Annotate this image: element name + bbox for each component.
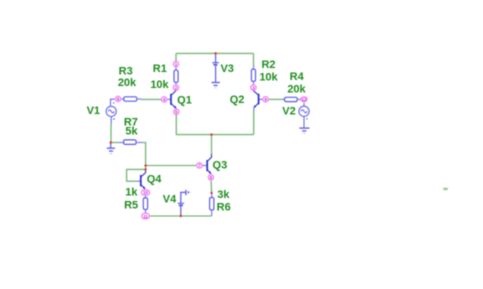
svg-text:20k: 20k (287, 84, 306, 96)
junction dot (R6 top) (210, 192, 212, 194)
svg-text:9: 9 (264, 97, 267, 102)
source V2 (299, 103, 309, 129)
svg-text:R2: R2 (261, 59, 275, 71)
svg-text:3: 3 (252, 85, 255, 90)
wire R7 left (111, 142, 119, 144)
svg-text:R6: R6 (217, 202, 231, 214)
ground (below V2) (299, 128, 309, 133)
transistor Q2 (253, 91, 262, 111)
svg-text:5: 5 (175, 110, 178, 115)
svg-text:R1: R1 (153, 63, 167, 75)
junction dot (V4 bottom rail) (180, 215, 182, 217)
svg-text:1k: 1k (125, 186, 138, 198)
resistor R4 (282, 97, 301, 101)
wire Q3 collector riser (211, 135, 213, 154)
svg-text:R3: R3 (119, 65, 133, 77)
svg-text:R5: R5 (124, 199, 138, 211)
node 3 bubble (251, 85, 256, 91)
transistor Q1 (167, 91, 176, 109)
V1 minus mark (113, 119, 115, 120)
resistor R2 (251, 65, 255, 84)
svg-text:Q2: Q2 (230, 94, 245, 106)
wire emitter rail (176, 134, 254, 136)
junction dot (V3 top rail) (214, 52, 216, 54)
svg-text:R4: R4 (290, 71, 305, 83)
V1 plus mark (113, 102, 114, 103)
junction dot (emitter rail / Q3) (210, 133, 212, 135)
svg-text:3k: 3k (217, 189, 230, 201)
node 1 bubble (173, 61, 178, 66)
svg-text:V4: V4 (163, 194, 177, 206)
svg-text:11: 11 (143, 214, 148, 219)
wire Q3 emitter to R6 (210, 181, 213, 193)
wire Q4 base loop (127, 169, 146, 181)
svg-text:Q1: Q1 (177, 94, 192, 106)
transistor Q3 (203, 154, 212, 174)
resistor R3 (121, 97, 141, 101)
node 9 bubble (263, 97, 268, 102)
node 7 bubble (197, 163, 202, 169)
svg-text:V3: V3 (220, 63, 233, 75)
node 2 bubble (173, 85, 178, 91)
wire Q1 emitter down (175, 115, 177, 135)
resistor R7 (119, 140, 142, 145)
svg-text:4: 4 (163, 97, 166, 102)
svg-text:7: 7 (198, 163, 201, 168)
svg-text:20k: 20k (118, 77, 137, 89)
svg-text:V1: V1 (87, 105, 100, 117)
node 12 bubble (301, 97, 307, 102)
svg-text:V2: V2 (282, 106, 295, 118)
V2 plus mark (306, 118, 307, 119)
wire V1 to R3 (green part after bubble) (141, 98, 161, 100)
svg-text:10: 10 (143, 190, 149, 195)
junction dot (node7 upper) (144, 164, 146, 166)
node 4 bubble (161, 97, 166, 102)
junction dot (V1 ground) (110, 141, 112, 143)
wire bottom rail (150, 215, 212, 217)
junction dot (node7 lower) (144, 168, 146, 170)
node 11 bubble (142, 213, 150, 219)
wire node7 to Q3 base (146, 165, 197, 167)
ground (below V1) (107, 143, 115, 154)
svg-text:Q4: Q4 (147, 173, 163, 185)
node 10 bubble (141, 190, 149, 195)
stray green mark (443, 188, 448, 191)
wire R7 right + down to Q4 node (142, 143, 145, 170)
svg-text:6: 6 (117, 97, 120, 102)
source V1 (106, 99, 116, 124)
svg-text:2: 2 (175, 85, 178, 90)
battery V4 (178, 192, 186, 216)
svg-text:Q3: Q3 (213, 160, 228, 172)
svg-text:10k: 10k (150, 79, 169, 91)
svg-text:1: 1 (175, 62, 178, 67)
wire R2 top (253, 53, 255, 65)
wire top rail (176, 52, 254, 54)
node 6 bubble (115, 96, 120, 101)
resistor R6 (210, 193, 214, 216)
node 8 bubble (208, 175, 213, 181)
resistor R5 (143, 195, 147, 213)
ground (below V3) (212, 83, 220, 88)
svg-text:10k: 10k (259, 72, 278, 84)
wire R1 top (175, 53, 177, 61)
wire Q2 base to R4 (269, 98, 282, 100)
wire Q2 emitter down (253, 111, 255, 135)
resistor R1 (174, 67, 178, 84)
battery V3 (212, 53, 219, 82)
node 5 bubble (174, 109, 179, 114)
ground (V4 plus terminal, rotated) (186, 190, 190, 195)
svg-text:12: 12 (301, 97, 307, 102)
svg-text:8: 8 (210, 175, 213, 180)
svg-text:5k: 5k (125, 126, 138, 138)
wire V1 bottom (110, 125, 112, 143)
transistor Q4 (136, 169, 146, 189)
